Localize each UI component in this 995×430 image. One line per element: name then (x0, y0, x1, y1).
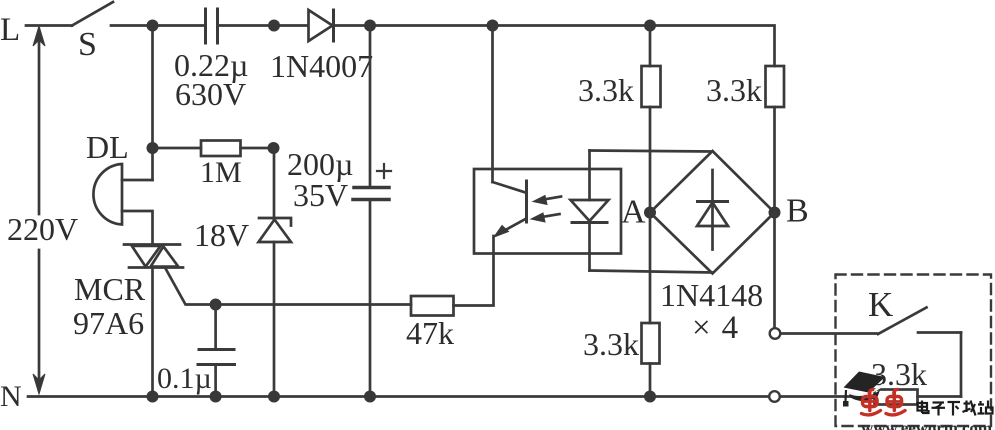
wire vertical from top rail to DL junction (151, 26, 154, 181)
wire L rail left segment (26, 24, 72, 27)
lamp DL body (D shape) (93, 164, 122, 225)
triac MCR97A6 right triangle (151, 246, 179, 266)
junction dot N rail x274 (268, 391, 280, 403)
wire N rail (28, 395, 769, 398)
triac MCR97A6 left triangle (132, 246, 161, 267)
junction dot top rail x153 (147, 20, 159, 32)
zener D2 triangle (259, 220, 292, 243)
svg-text:3.3k: 3.3k (583, 326, 639, 362)
bridge rectifier diamond (650, 151, 775, 274)
terminal circle lower (769, 391, 780, 402)
resistor R2 bottom lead to node A (649, 107, 652, 213)
capacitor C2 bottom lead (369, 201, 372, 397)
junction dot gate line x216 (210, 299, 222, 311)
bridge inner diode stem (711, 170, 714, 250)
terminal circle upper (770, 328, 781, 339)
resistor R1 1M body (201, 141, 241, 157)
capacitor C3 bottom lead (214, 366, 217, 397)
220V measurement arrow shaft upper (38, 30, 41, 214)
resistor R1 right lead (241, 147, 274, 150)
svg-text:35V: 35V (293, 177, 348, 213)
junction dot top rail x275 (268, 20, 280, 32)
opto LED bottom lead (588, 224, 591, 271)
junction dot N rail x650 (644, 391, 656, 403)
opto LED triangle (571, 200, 609, 221)
node A dot (644, 207, 656, 219)
opto transistor emitter arrowhead (494, 226, 509, 238)
svg-text:B: B (786, 193, 809, 230)
opto transistor collector diagonal (493, 182, 526, 193)
resistor R6 47k body (411, 296, 454, 316)
junction dot top rail x650 (644, 20, 656, 32)
triac MCR97A6 top bar (124, 243, 180, 246)
svg-text:N: N (0, 380, 22, 413)
svg-text:DL: DL (86, 129, 129, 165)
svg-text:3.3k: 3.3k (578, 72, 634, 108)
resistor R4 top lead (649, 213, 652, 324)
watermark graduation cap logo (843, 372, 885, 407)
opto transistor emitter diagonal (498, 219, 526, 234)
bridge inner diode triangle (697, 203, 728, 227)
junction dot N rail x216 (210, 391, 222, 403)
resistor R1 left lead (153, 147, 202, 150)
wire top rail (111, 24, 205, 27)
opto light arrow 1 (533, 196, 561, 205)
diode D1 cathode bar (332, 10, 335, 41)
svg-text:1N4007: 1N4007 (270, 48, 373, 84)
capacitor C3 0.1u top lead (214, 305, 217, 349)
triac main vertical wire down to N (151, 268, 154, 397)
svg-text:0.1µ: 0.1µ (157, 362, 212, 395)
zener D2 18V vertical wire upper (273, 148, 276, 219)
svg-text:A: A (621, 194, 646, 231)
junction dot top rail x370 (364, 20, 376, 32)
wire node B down to terminal (773, 213, 776, 329)
resistor R3 bottom lead to node B (773, 107, 776, 213)
relay bottom wire right of resistor (918, 395, 962, 398)
resistor R2 top lead (649, 26, 652, 67)
switch S lever (72, 2, 113, 26)
relay wire from lower terminal (780, 395, 875, 398)
svg-text:K: K (868, 285, 893, 324)
opto LED cathode bar (572, 221, 607, 224)
svg-text:MCR: MCR (74, 271, 146, 307)
svg-text:1M: 1M (200, 156, 242, 189)
220V arrow head down (33, 374, 45, 394)
opto LED top lead (588, 151, 591, 201)
zener D2 vertical wire lower (273, 242, 276, 397)
resistor R4 3.3k bottom body (642, 323, 660, 364)
relay right vertical wire (960, 333, 963, 397)
wire LED bottom link to bridge (590, 271, 713, 273)
opto emitter wire down to 47k (454, 236, 494, 306)
capacitor C2 200u top lead (369, 26, 372, 187)
lamp DL bottom lead (122, 211, 153, 245)
junction dot 1M right x274 (268, 142, 280, 154)
resistor R4 bottom lead (649, 364, 652, 397)
watermark red chongchong characters (862, 390, 906, 415)
wire top rail seg2 (219, 24, 309, 27)
svg-text:97A6: 97A6 (73, 305, 144, 341)
junction dot top rail x492 (487, 20, 499, 32)
opto transistor base bar (525, 181, 528, 222)
svg-text:www.eeworm.com: www.eeworm.com (861, 419, 992, 430)
relay switch K lever (878, 308, 927, 335)
svg-text:3.3k: 3.3k (706, 72, 762, 108)
node B dot (769, 207, 781, 219)
220V measurement arrow shaft lower (38, 250, 41, 390)
resistor R3 3.3k top-right body (766, 66, 785, 107)
resistor R2 3.3k top-left body (642, 66, 661, 107)
capacitor C2 plates (353, 188, 389, 200)
svg-text:47k: 47k (406, 315, 454, 351)
capacitor C1 0.22u plates (206, 9, 218, 43)
resistor R5 3.3k relay body (875, 390, 918, 405)
junction dot N rail x370 (364, 391, 376, 403)
relay switch right contact (918, 331, 961, 334)
svg-text:630V: 630V (175, 76, 246, 112)
lamp DL top lead (122, 179, 153, 182)
bridge inner diode cathode bar (698, 200, 728, 203)
watermark text dianzixiazaizhan (drawn strokes) (918, 401, 993, 416)
optocoupler U1 box (474, 169, 621, 254)
220V arrow head up (33, 26, 45, 46)
relay dashed enclosure (836, 275, 992, 427)
triac MCR97A6 bottom bar (129, 266, 183, 269)
junction dot 1M left x153 (147, 142, 159, 154)
wire opto collector from top rail (491, 26, 494, 183)
zener D2 cathode bar with hook (259, 218, 291, 226)
wire top rail seg3 with corner down to relay branch (335, 26, 775, 67)
svg-text:×4: ×4 (692, 310, 749, 346)
diode D1 1N4007 triangle (309, 10, 333, 41)
svg-text:220V: 220V (7, 211, 78, 247)
junction dot N rail x153 (147, 391, 159, 403)
capacitor C2 polarity plus (377, 164, 391, 178)
relay wire from upper terminal (781, 332, 879, 335)
capacitor C3 plates (198, 350, 235, 365)
svg-text:S: S (78, 26, 97, 63)
svg-text:18V: 18V (194, 217, 249, 253)
svg-text:L: L (0, 12, 20, 48)
triac gate diagonal (165, 268, 411, 305)
svg-text:1N4148: 1N4148 (660, 277, 763, 313)
wire LED top link to bridge (590, 151, 713, 152)
opto light arrow 2 (531, 213, 560, 222)
